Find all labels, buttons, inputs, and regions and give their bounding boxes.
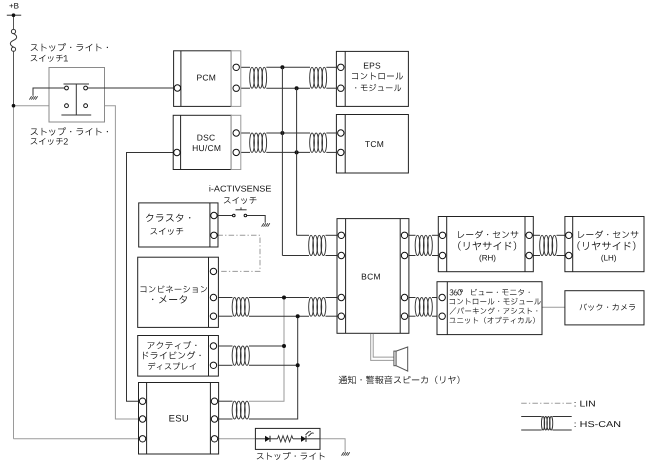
svg-text:DSC: DSC: [197, 132, 216, 142]
svg-text:HU/CM: HU/CM: [192, 143, 221, 153]
svg-text:PCM: PCM: [196, 72, 216, 82]
svg-text:ESU: ESU: [169, 414, 189, 425]
svg-text:(RH): (RH): [479, 253, 496, 262]
svg-text:: LIN: : LIN: [574, 399, 596, 409]
svg-text:(LH): (LH): [601, 253, 617, 262]
svg-text:BCM: BCM: [361, 271, 381, 281]
svg-text:i-ACTIVSENSE: i-ACTIVSENSE: [209, 183, 272, 193]
svg-text:EPS: EPS: [363, 60, 381, 70]
svg-text:+B: +B: [9, 1, 19, 10]
svg-text:: HS-CAN: : HS-CAN: [574, 419, 621, 429]
svg-text:TCM: TCM: [365, 139, 384, 149]
